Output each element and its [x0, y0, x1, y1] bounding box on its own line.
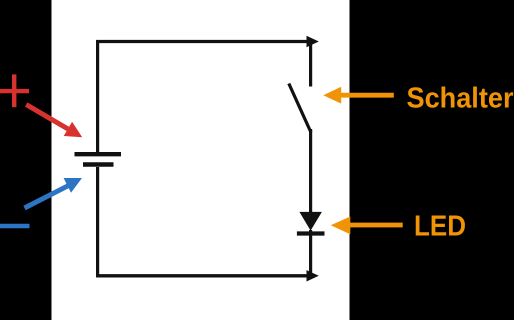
orange arrow to switch: [323, 87, 394, 104]
svg-text:LED: LED: [414, 211, 466, 243]
plus symbol (red, battery positive annotation): [0, 74, 29, 107]
orange arrow to LED: [331, 217, 403, 235]
node bottom-right junction: [307, 270, 319, 281]
wire top: [96, 40, 310, 43]
minus symbol (blue, battery negative annotation): [0, 224, 30, 228]
LED D1 cathode bar: [297, 231, 325, 235]
wire left lower: [96, 167, 99, 277]
wire bottom: [96, 274, 308, 277]
left black pillar: [0, 0, 52, 320]
wire right middle: [309, 129, 312, 213]
battery B1 negative plate: [83, 162, 114, 167]
red annotation arrow to positive plate: [26, 105, 82, 138]
right black pillar: [350, 0, 514, 320]
wire right upper (switch fixed contact): [309, 40, 312, 87]
battery B1 positive plate: [75, 152, 122, 156]
switch S1 blade: [289, 84, 311, 133]
wire left upper: [96, 40, 99, 152]
blue annotation arrow to negative plate: [25, 178, 83, 208]
node top-right junction: [307, 36, 319, 47]
svg-text:Schalter: Schalter: [407, 82, 514, 114]
wire right lower: [309, 230, 312, 277]
LED D1 triangle (anode): [299, 212, 322, 231]
